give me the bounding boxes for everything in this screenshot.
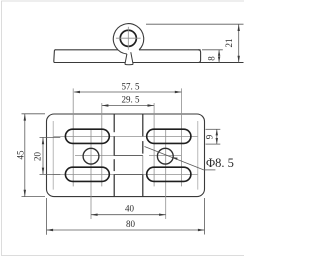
slot bottom-left <box>65 167 109 181</box>
bend line left <box>52 121 54 190</box>
knuckle outer arc <box>113 24 143 54</box>
svg-text:29. 5: 29. 5 <box>122 94 141 104</box>
plate right leaf top edge <box>139 49 201 51</box>
plate outline <box>47 114 205 197</box>
dimension 29.5 <box>102 105 154 107</box>
knuckle crosshair vertical <box>127 27 129 50</box>
vertical line slot arc right outer <box>181 88 183 186</box>
dimension 9 extension lines <box>206 128 221 130</box>
dimension 45 line <box>24 114 26 197</box>
dimension 40 line <box>91 214 166 216</box>
extension plate right edge down <box>204 198 206 235</box>
svg-text:21: 21 <box>224 39 234 48</box>
svg-text:20: 20 <box>33 152 43 162</box>
dimension 20 line <box>42 137 44 174</box>
dimension 8 line <box>218 50 220 63</box>
dimension 9 line <box>216 129 218 144</box>
hole circle right <box>157 148 173 164</box>
svg-text:40: 40 <box>125 204 135 214</box>
bend line right <box>197 121 199 190</box>
svg-text:9: 9 <box>204 134 214 139</box>
dimension 45 extension lines <box>22 113 46 115</box>
svg-text:Φ8. 5: Φ8. 5 <box>206 156 234 170</box>
vertical centerline left circle <box>90 130 92 220</box>
plate right end <box>198 50 200 63</box>
centerline circles right <box>149 155 181 157</box>
svg-text:8: 8 <box>207 56 217 61</box>
plate bottom edge (extends right as extension line) <box>54 62 244 64</box>
vertical line slot arc left inner <box>101 103 103 186</box>
slot top-right <box>147 129 191 143</box>
wedge below knuckle (hanging leaf) <box>125 52 133 64</box>
plate left leaf top edge <box>55 49 118 51</box>
centerline top slots <box>53 135 198 137</box>
svg-text:57. 5: 57. 5 <box>122 81 141 91</box>
slot top-left <box>65 129 109 143</box>
knuckle pin hole circle <box>120 30 136 46</box>
dimension 57.5 <box>74 91 181 93</box>
vertical line slot arc right inner <box>153 103 155 186</box>
dimension 20 extension lines <box>40 136 61 138</box>
knuckle crosshair horizontal <box>116 37 141 39</box>
hole circle left <box>83 148 99 164</box>
leader line for hole diameter <box>145 147 204 170</box>
dimension 21 extension top <box>146 23 244 25</box>
svg-text:80: 80 <box>126 219 136 229</box>
dimension 80 line <box>47 229 205 231</box>
slot bottom-right <box>147 167 191 181</box>
knuckle joint right vertical x2 segments <box>142 114 144 136</box>
dimension 21 line <box>238 24 240 62</box>
vertical centerline right circle <box>165 130 167 220</box>
knuckle joint left vertical x1 segments <box>113 114 115 132</box>
dimension 8 extension top <box>202 49 223 51</box>
knuckle joint horizontal jogs <box>114 155 143 157</box>
vertical line slot arc left outer <box>72 88 74 186</box>
extension plate left edge down <box>46 198 48 235</box>
centerline bottom slots <box>53 173 198 175</box>
svg-text:45: 45 <box>15 150 25 160</box>
page border frame <box>2 1 245 256</box>
centerline circles left <box>75 155 143 157</box>
plate left end <box>54 50 56 63</box>
